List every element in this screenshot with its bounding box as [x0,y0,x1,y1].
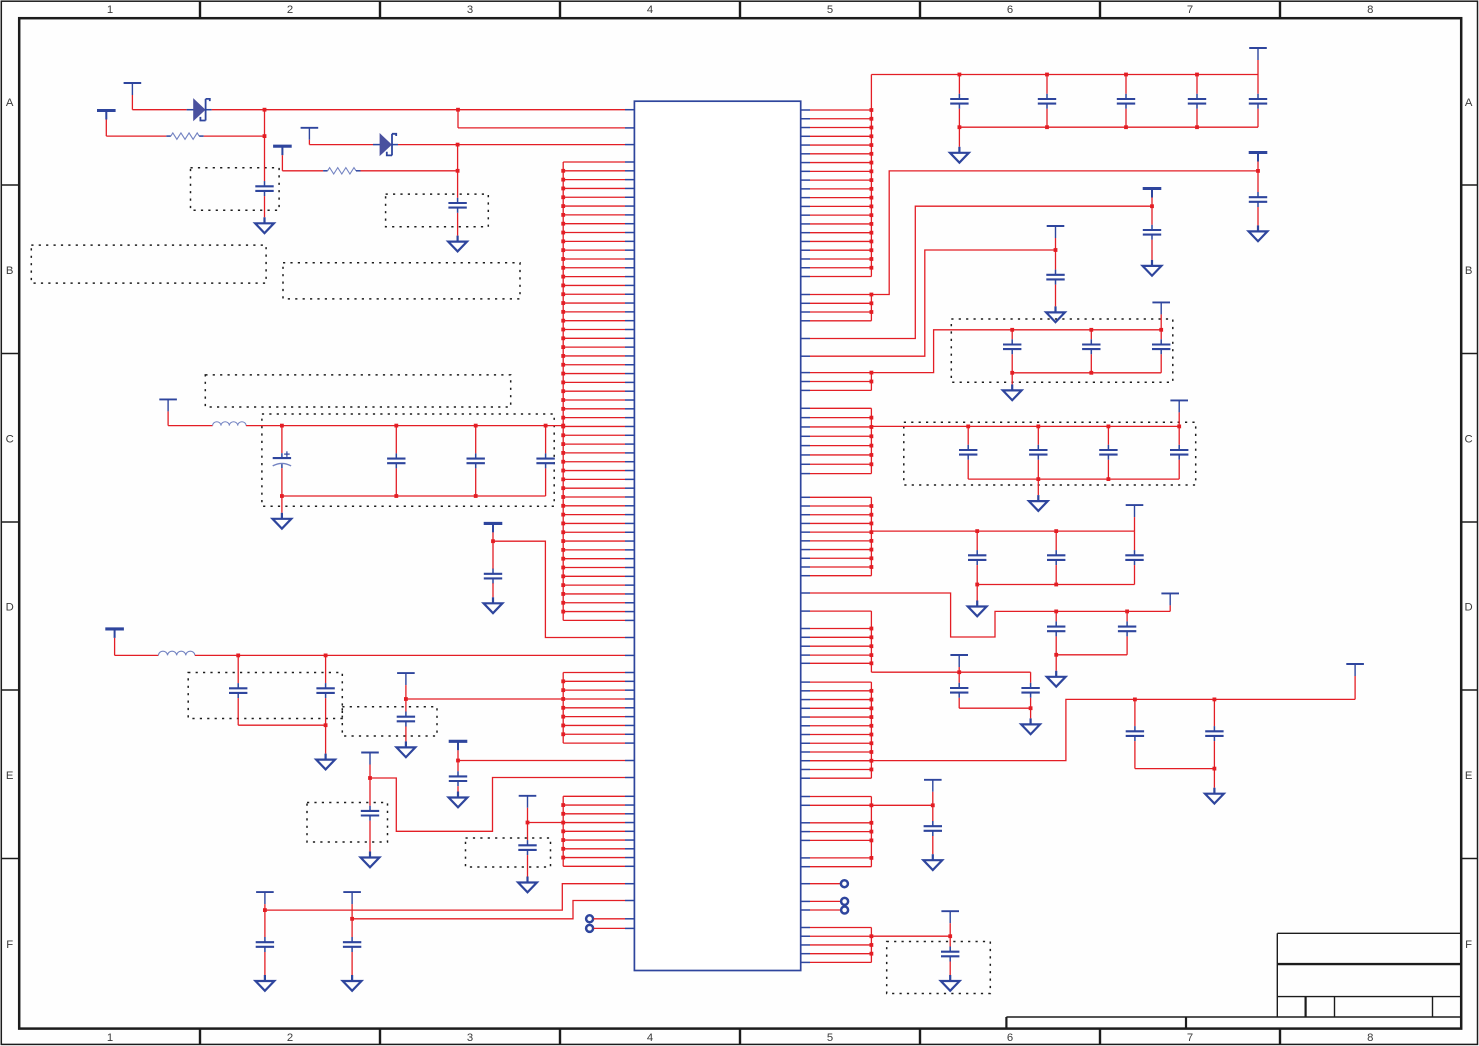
resistor R1 [106,135,166,137]
dnp outline box L4 [342,707,437,736]
capacitor C15 [351,919,353,937]
dnp outline box L2 [262,414,554,506]
ground G21 [1213,769,1215,788]
capacitor C29 [1107,426,1109,444]
wire bank1 bottom rail [1012,372,1161,374]
capacitor C22 [1151,206,1153,225]
power P3 [301,127,319,129]
capacitor C34 [1055,611,1057,621]
svg-text:C: C [6,433,14,445]
ground G20 [1030,708,1032,718]
dnp outline box T2 [386,194,489,227]
capacitor C5 [475,426,477,454]
ground G1 [263,217,265,223]
wire H2 net [352,901,625,919]
capacitor C6 [545,426,547,454]
wire right pin bus group 1 [810,75,873,277]
ground G12 [958,125,962,129]
ground G23 [949,975,951,981]
capacitor C19 [1196,75,1198,94]
power P21 [1161,592,1179,594]
wire P10 net [458,760,625,762]
dnp outline box T1 [191,168,280,211]
svg-text:4: 4 [647,1032,653,1044]
capacitor C12 [457,761,459,772]
svg-text:E: E [1465,770,1473,782]
ground G22 [932,854,934,860]
wire right pin bus group 2 [810,293,873,321]
capacitor C41 [949,936,951,946]
capacitor C32 [1055,531,1057,550]
svg-text:E: E [6,770,14,782]
svg-text:2: 2 [287,4,293,16]
capacitor C36 [958,672,960,683]
capacitor C33 [1134,531,1136,550]
capacitor C27 [967,426,969,444]
inductor FB1 [168,425,213,427]
capacitor C8 [237,655,239,683]
wire net B [309,144,373,146]
dnp outline box T4 [283,263,520,299]
dnp outline box R3 [887,942,991,994]
wire P11 net [528,822,564,824]
capacitor C18 [1125,75,1127,94]
capacitor C9 [325,655,327,683]
power P1 [124,82,142,84]
inductor FB2 [115,654,159,656]
wire right pin bus group 7 [810,682,873,778]
wire right pin bus group 9 [810,928,873,963]
svg-text:B: B [6,265,14,277]
power P11 [519,795,537,797]
svg-text:3: 3 [467,1032,473,1044]
ground G15 [1054,306,1056,312]
capacitor C38 [1134,699,1136,726]
title block [1006,933,1460,1029]
svg-text:5: 5 [827,4,833,16]
capacitor C35 [1126,611,1128,621]
power P5 [159,398,177,400]
wire net B cap branch [457,145,459,198]
dnp outline box L5 [307,803,388,843]
ground G18 [976,585,978,601]
dnp outline box L1 [205,375,510,407]
svg-text:F: F [1465,939,1472,951]
ground G2 [457,236,459,242]
wire rail2 [871,171,1258,295]
dnp outline box L6 [466,838,551,867]
ground G5 [325,754,327,760]
capacitor C30 [1178,426,1180,444]
ground G6 [405,741,407,747]
ground G13 [1257,225,1259,231]
capacitor C13 [527,823,529,841]
svg-text:8: 8 [1367,4,1373,16]
capacitor C39 [1213,699,1215,726]
wire bank3 rail [871,530,1134,532]
wire left pin bus group 2 [561,673,625,744]
dnp outline box R2 [904,422,1196,485]
wire P6 net [493,541,625,637]
ground G10 [264,975,266,981]
no-connect NC3 [810,883,840,885]
dnp outline box T3 [31,245,266,283]
wire bank6 bottom rail [1135,768,1215,770]
power P18 [1152,301,1170,303]
capacitor C10 [405,699,407,712]
wire P8 net [406,698,563,700]
capacitor C1 [264,181,266,186]
wire P25 net [871,935,950,937]
svg-text:B: B [1465,265,1473,277]
capacitor C21 [1257,171,1259,192]
capacitor C4 [395,426,397,454]
power P2 [97,109,116,112]
capacitor C31 [976,531,978,550]
power P9 [361,752,379,754]
svg-text:7: 7 [1187,1032,1193,1044]
wire right pin bus group 4 [810,408,873,473]
no-connect NC4 [810,900,841,902]
svg-text:F: F [6,939,13,951]
ground G19 [1055,655,1057,671]
capacitor C7 [492,541,494,569]
ground G4 [492,597,494,603]
diode D1 [187,109,195,111]
power P22 [950,654,968,656]
svg-text:4: 4 [647,4,653,16]
svg-text:D: D [1465,602,1473,614]
power P17 [1047,225,1065,227]
IC U1 right pin stubs [801,110,810,962]
capacitor C14 [264,910,266,937]
power P14 [1249,47,1267,49]
capacitor C20 [1257,75,1259,94]
ground G11 [351,975,353,981]
power P10 [449,740,468,743]
IC U1 left pin stubs [625,110,634,929]
capacitor C23 [1055,250,1057,270]
power P20 [1126,504,1144,506]
wire bank6 rail [810,699,1355,760]
power P7 [105,627,124,630]
svg-text:2: 2 [287,1032,293,1044]
wire bank4 rail [810,593,1170,637]
svg-text:A: A [1465,97,1473,109]
power P25 [941,910,959,912]
svg-text:5: 5 [827,1032,833,1044]
wire bank5 rail [871,671,1030,673]
capacitor C26 [1160,330,1162,340]
wire net A cap branch [264,110,266,182]
wire top bank bottom rail [959,126,1258,128]
junction net A [263,108,267,112]
power P13 [343,891,361,893]
junctions rail C [280,424,284,428]
wire H1 net [265,884,625,910]
power P15 [1249,151,1268,154]
power P4 [273,145,292,148]
ground G16 [1011,373,1013,385]
power P16 [1143,187,1162,190]
wire VCC top rail [871,74,1258,76]
wire P9 net [370,778,625,832]
power P19 [1170,399,1188,401]
wire bank3 bottom rail [977,584,1134,586]
no-connect NC2 [586,925,593,932]
junction net B [456,143,460,147]
svg-text:C: C [1465,433,1473,445]
power P23 [1346,663,1364,665]
svg-text:8: 8 [1367,1032,1373,1044]
IC U1 [634,101,800,970]
wire P24 net [871,804,932,806]
svg-text:7: 7 [1187,4,1193,16]
wire bank2 bottom rail [968,478,1179,480]
ground G14 [1151,260,1153,266]
wire C8/C9 bottom [238,724,325,726]
wire left pin bus group 3 [561,796,625,866]
wire net A pin2 branch [457,110,459,128]
no-connect NC5 [810,909,841,911]
svg-text:1: 1 [107,1032,113,1044]
wire bank5 bottom rail [959,707,1030,709]
diode D2 [373,144,381,146]
wire right pin bus group 8 [810,797,873,867]
svg-text:1: 1 [107,4,113,16]
svg-text:6: 6 [1007,1032,1013,1044]
wire left pin bus group 1 [561,162,625,620]
ground G9 [526,877,528,883]
svg-text:6: 6 [1007,4,1013,16]
svg-text:D: D [6,602,14,614]
no-connect NC1 [586,915,593,922]
power P24 [924,779,942,781]
capacitor C37 [1030,672,1032,683]
wire right pin bus group 5 [810,497,873,575]
ground G7 [369,852,371,858]
wire bank1 rail [871,330,1161,373]
wire rail C bottom [282,495,546,497]
capacitor C3 (polarized) [281,426,283,454]
svg-text:A: A [6,97,14,109]
wire right pin bus group 6 [810,611,873,672]
wire net A [132,109,186,111]
capacitor C17 [1046,75,1048,94]
power P8 [397,672,415,674]
dnp outline box R1 [951,319,1173,382]
wire bank4 bottom rail [1056,654,1127,656]
wire right pin bus group 3 [810,371,873,391]
wire rail4 [810,250,1056,356]
wire rail3 [810,206,1152,338]
svg-text:3: 3 [467,4,473,16]
ground G17 [1037,479,1039,495]
capacitor C16 [958,75,960,94]
dnp outline box L3 [188,673,342,719]
resistor R2 [282,170,323,172]
capacitor C24 [1011,330,1013,340]
ground G3 [281,496,283,513]
capacitor C28 [1037,426,1039,444]
capacitor C2 [457,198,459,203]
wire bank2 rail [871,425,1179,427]
power P12 [256,891,274,893]
capacitor C40 [932,805,934,821]
capacitor C25 [1090,330,1092,340]
power P6 [484,522,503,525]
capacitor C11 [369,778,371,806]
ground G8 [457,792,459,798]
